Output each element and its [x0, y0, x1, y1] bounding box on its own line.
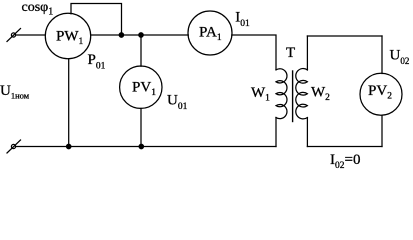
wire secondary bottom	[307, 146, 382, 148]
wire primary bottom	[16, 146, 277, 148]
wire bypass over PW1	[71, 4, 122, 36]
node junction dot 3	[67, 144, 71, 148]
wire top-left stub	[16, 34, 46, 36]
transformer core	[292, 71, 294, 122]
wire W2 top lead	[306, 36, 308, 70]
wire PV1 bottom branch	[140, 108, 142, 146]
wire secondary right lower	[381, 115, 383, 146]
ammeter PA1	[188, 11, 232, 55]
wattmeter PW1	[45, 13, 90, 58]
node junction dot 4	[139, 144, 143, 148]
terminal bottom-left	[7, 140, 21, 153]
wire PA1 to transformer corner	[232, 35, 276, 70]
svg-text:T: T	[286, 45, 295, 61]
node junction dot 2	[139, 33, 143, 37]
wire secondary top	[307, 35, 382, 37]
voltmeter PV1	[120, 66, 162, 108]
wire PW1 to PA1	[91, 34, 189, 36]
winding W1	[276, 69, 287, 119]
terminal top-left	[7, 29, 21, 42]
wire PV1 top branch	[140, 35, 142, 66]
winding W2	[296, 69, 308, 119]
wire PW1 down branch	[68, 59, 70, 147]
voltmeter PV2	[360, 73, 402, 115]
wire W1 bottom lead	[275, 118, 277, 147]
wire secondary right upper	[381, 36, 383, 74]
wire W2 bottom lead	[306, 118, 308, 147]
node junction dot 1	[119, 33, 123, 37]
